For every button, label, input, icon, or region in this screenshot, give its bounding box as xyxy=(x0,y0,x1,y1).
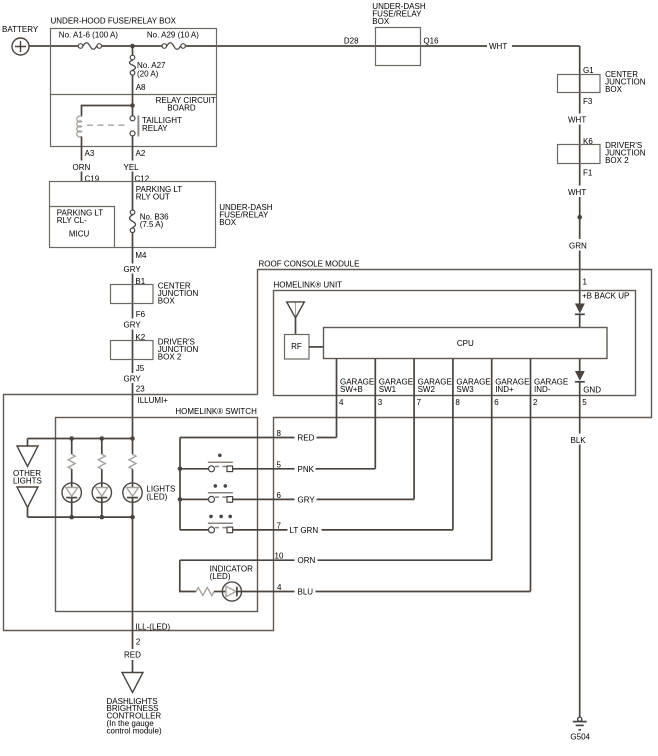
svg-text:ROOF CONSOLE MODULE: ROOF CONSOLE MODULE xyxy=(259,260,360,269)
svg-text:A8: A8 xyxy=(136,83,146,92)
svg-text:BOX 2: BOX 2 xyxy=(605,156,629,165)
svg-text:GRY: GRY xyxy=(124,265,142,274)
svg-text:2: 2 xyxy=(533,398,538,407)
svg-text:ILLUMI+: ILLUMI+ xyxy=(138,396,169,405)
svg-text:No. A1-6 (100 A): No. A1-6 (100 A) xyxy=(59,31,118,40)
svg-text:8: 8 xyxy=(277,429,282,438)
svg-text:GND: GND xyxy=(583,386,601,395)
svg-text:BOX: BOX xyxy=(605,85,623,94)
svg-text:G504: G504 xyxy=(570,733,590,742)
svg-text:LIGHTS: LIGHTS xyxy=(13,477,42,486)
svg-text:HOMELINK® SWITCH: HOMELINK® SWITCH xyxy=(175,407,257,416)
svg-text:WHT: WHT xyxy=(489,42,507,51)
svg-text:HOMELINK® UNIT: HOMELINK® UNIT xyxy=(274,281,343,290)
svg-text:RLY OUT: RLY OUT xyxy=(136,193,170,202)
svg-text:CPU: CPU xyxy=(457,339,474,348)
svg-text:(LED): (LED) xyxy=(210,572,231,581)
svg-text:GRN: GRN xyxy=(569,242,587,251)
svg-text:BLK: BLK xyxy=(571,436,587,445)
svg-text:7: 7 xyxy=(277,521,282,530)
svg-text:PNK: PNK xyxy=(298,465,315,474)
svg-text:RED: RED xyxy=(298,434,315,443)
svg-text:C19: C19 xyxy=(85,175,100,184)
svg-text:Q16: Q16 xyxy=(423,36,439,45)
svg-text:GRY: GRY xyxy=(124,321,142,330)
svg-text:IND-: IND- xyxy=(534,385,551,394)
svg-text:No. A29 (10 A): No. A29 (10 A) xyxy=(147,31,199,40)
svg-text:IND+: IND+ xyxy=(495,385,514,394)
svg-text:5: 5 xyxy=(277,460,282,469)
svg-text:3: 3 xyxy=(378,398,383,407)
svg-text:ORN: ORN xyxy=(73,163,91,172)
svg-text:7: 7 xyxy=(417,398,422,407)
svg-text:BLU: BLU xyxy=(298,588,314,597)
svg-text:2: 2 xyxy=(136,637,141,646)
svg-text:SW3: SW3 xyxy=(456,385,474,394)
svg-text:BOX: BOX xyxy=(219,218,237,227)
svg-text:4: 4 xyxy=(277,583,282,592)
svg-text:A2: A2 xyxy=(136,149,146,158)
svg-text:10: 10 xyxy=(275,552,284,561)
svg-text:5: 5 xyxy=(582,398,587,407)
svg-text:BOX 2: BOX 2 xyxy=(158,353,182,362)
svg-text:YEL: YEL xyxy=(124,163,140,172)
svg-text:D28: D28 xyxy=(344,36,359,45)
svg-text:SW2: SW2 xyxy=(418,385,436,394)
svg-text:F1: F1 xyxy=(583,169,593,178)
svg-text:F6: F6 xyxy=(136,310,146,319)
svg-text:J5: J5 xyxy=(136,364,145,373)
svg-text:LT GRN: LT GRN xyxy=(290,526,319,535)
svg-text:BOX: BOX xyxy=(158,297,176,306)
svg-text:8: 8 xyxy=(455,398,460,407)
svg-text:(LED): (LED) xyxy=(146,493,167,502)
svg-text:6: 6 xyxy=(277,491,282,500)
svg-text:A3: A3 xyxy=(85,149,95,158)
svg-text:23: 23 xyxy=(136,385,145,394)
svg-text:RLY CL-: RLY CL- xyxy=(57,216,87,225)
svg-text:BOX: BOX xyxy=(372,17,390,26)
svg-text:GRY: GRY xyxy=(298,495,316,504)
svg-text:MICU: MICU xyxy=(69,230,90,239)
svg-text:BOARD: BOARD xyxy=(167,104,196,113)
svg-text:WHT: WHT xyxy=(568,116,586,125)
svg-text:UNDER-HOOD FUSE/RELAY BOX: UNDER-HOOD FUSE/RELAY BOX xyxy=(51,17,177,26)
svg-text:SW1: SW1 xyxy=(379,385,397,394)
svg-text:BATTERY: BATTERY xyxy=(2,25,39,34)
svg-text:6: 6 xyxy=(494,398,499,407)
svg-text:control module): control module) xyxy=(107,726,162,735)
svg-text:F3: F3 xyxy=(583,97,593,106)
svg-text:ILL-(LED): ILL-(LED) xyxy=(136,623,171,632)
svg-text:RF: RF xyxy=(291,342,302,351)
svg-text:SW+B: SW+B xyxy=(340,385,363,394)
svg-text:GRY: GRY xyxy=(124,375,142,384)
svg-text:RED: RED xyxy=(124,651,141,660)
svg-text:ORN: ORN xyxy=(298,556,316,565)
svg-text:WHT: WHT xyxy=(568,188,586,197)
svg-text:(7.5 A): (7.5 A) xyxy=(140,220,164,229)
svg-text:1: 1 xyxy=(583,278,588,287)
svg-text:C12: C12 xyxy=(135,175,150,184)
svg-text:+B BACK UP: +B BACK UP xyxy=(582,291,629,300)
svg-text:(20 A): (20 A) xyxy=(137,70,159,79)
svg-text:4: 4 xyxy=(339,398,344,407)
svg-text:G1: G1 xyxy=(583,66,594,75)
svg-text:M4: M4 xyxy=(135,251,147,260)
svg-text:RELAY: RELAY xyxy=(142,124,168,133)
